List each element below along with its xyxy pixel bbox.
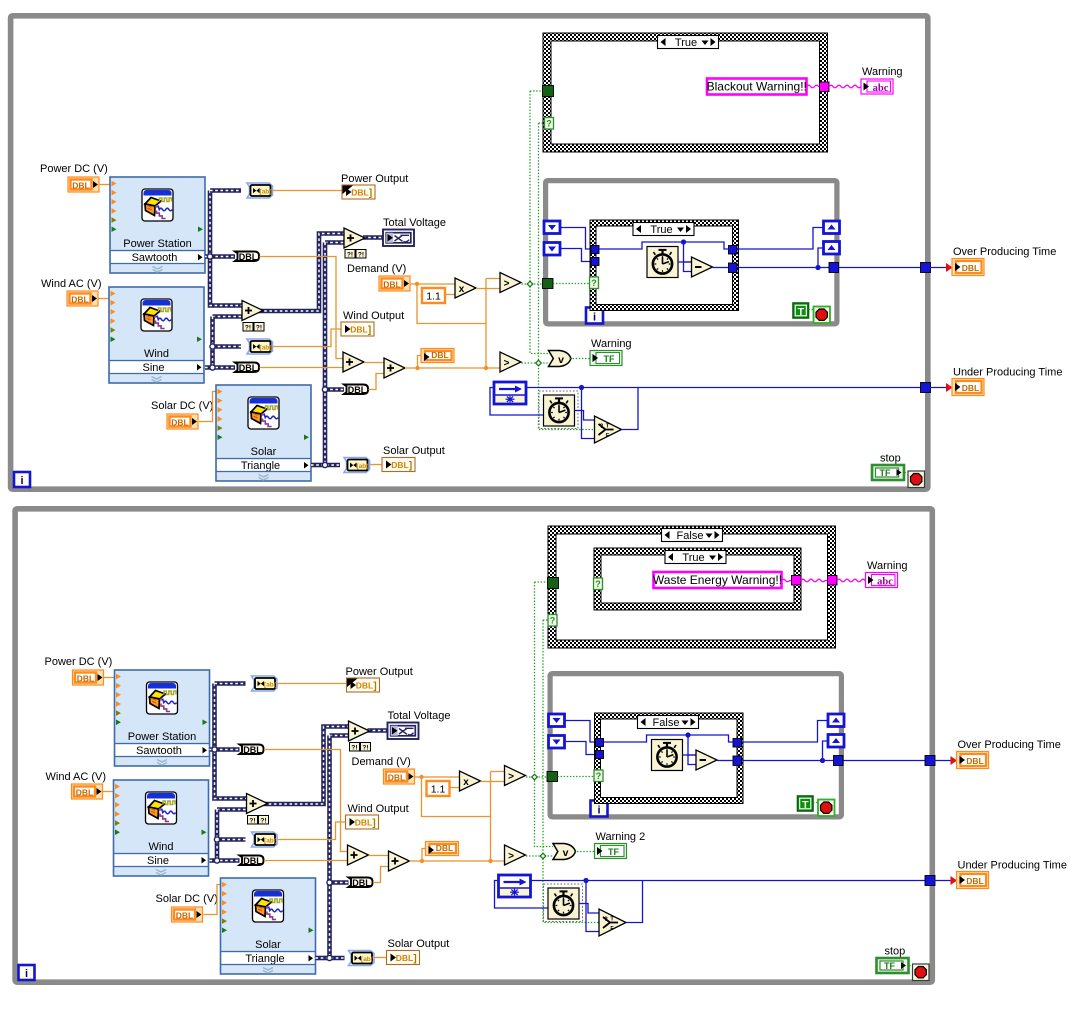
tunnel case left 1 [591, 246, 599, 254]
svg-text:DBL: DBL [77, 674, 94, 684]
svg-text:Power Station: Power Station [128, 731, 196, 743]
wire Wind AC to Wind [98, 298, 109, 300]
svg-text:DBL: DBL [356, 681, 373, 691]
wire branch to DBL indicator [422, 849, 426, 862]
junction sine [210, 344, 215, 349]
control Wind AC (V) DBL [67, 291, 98, 306]
case selector terminal [590, 277, 599, 289]
tunnel outer over [925, 756, 935, 766]
wire dynamic sine trunk [217, 807, 247, 812]
terminal sine DBL sink 2 [240, 856, 264, 866]
wire sine DBL to add [264, 860, 348, 862]
inner loop stop terminal [814, 307, 831, 324]
node subtract [692, 257, 713, 277]
wire T to stop [813, 803, 823, 807]
svg-text:i: i [25, 968, 28, 980]
wire dynamic solar trunk [325, 240, 344, 245]
svg-text:i: i [597, 805, 600, 817]
wire or to Warning [574, 851, 595, 853]
shift register left down 1 2 [549, 714, 565, 727]
control Solar DC (V) DBL [167, 414, 198, 429]
svg-text:DBL: DBL [383, 280, 400, 290]
wire total scalar to greater under [410, 860, 505, 862]
shift register right up 1 [824, 221, 840, 234]
svg-text:Warning 2: Warning 2 [596, 831, 646, 843]
wire clock out [683, 754, 697, 756]
svg-text:>: > [504, 278, 510, 289]
svg-text:Demand (V): Demand (V) [352, 756, 411, 768]
svg-text:]: ] [373, 681, 376, 692]
node multiply demand x 1.1 [455, 278, 476, 298]
wire solar DBL to add2 [373, 867, 389, 883]
wire select feedback loop [622, 388, 639, 430]
while loop 2 iteration terminal i [19, 965, 35, 980]
svg-text:T: T [802, 799, 809, 811]
svg-text:]: ] [369, 188, 372, 199]
node feedback 2 [499, 875, 531, 897]
tunnel case right 2 [733, 756, 742, 766]
wire case inside top [599, 242, 729, 249]
inner while loop 2 border [550, 674, 841, 817]
svg-text:Warning: Warning [591, 338, 632, 350]
junction sine [214, 837, 219, 842]
wire dynamic solar trunk [330, 733, 349, 738]
node add total 2 [349, 721, 370, 741]
wire convert wind to Wind Output [278, 822, 346, 840]
tunnel boolean into inner loop [547, 772, 558, 782]
svg-text:Wind AC (V): Wind AC (V) [46, 771, 107, 783]
node or warning [549, 351, 572, 367]
tunnel case right 1 [733, 739, 742, 748]
express VI Solar (Triangle) 2 [221, 878, 316, 974]
wire shift1 to case [565, 721, 597, 743]
terminal solar DBL sink [344, 385, 368, 395]
svg-text:[ab(: [ab( [361, 956, 374, 963]
svg-text:>: > [508, 771, 514, 782]
wire case out over-producing [737, 267, 925, 269]
node add total [344, 228, 365, 248]
svg-text:1.1: 1.1 [426, 291, 441, 303]
indicator Wind Output DBL [341, 322, 374, 336]
clock express VI dashed frame [539, 391, 578, 429]
wire under-producing main [531, 880, 930, 882]
svg-text:Sawtooth: Sawtooth [132, 252, 178, 264]
svg-text:?!: ?! [245, 324, 251, 331]
constant 1.1 2 [427, 781, 450, 796]
express VI Solar (Triangle) [216, 385, 311, 481]
while loop 1 border [11, 16, 928, 489]
svg-text:True: True [682, 552, 704, 564]
svg-text:?!: ?! [351, 744, 357, 751]
tunnel magenta inner [792, 576, 802, 586]
shift register right up 2 [824, 242, 840, 255]
svg-text:DBL: DBL [176, 911, 193, 921]
wire demand branch down [422, 777, 491, 817]
wire vertical to comparators [485, 279, 487, 369]
svg-text:]: ] [372, 818, 375, 829]
svg-text:DBL: DBL [350, 325, 367, 335]
shift register left down 2 [544, 243, 560, 256]
wire shift2 to case [565, 742, 597, 755]
svg-text:Wind: Wind [148, 841, 173, 853]
indicator total DBL 2 [426, 842, 459, 856]
svg-text:>: > [508, 851, 514, 862]
wire junction to select [586, 881, 599, 932]
svg-text:Solar DC (V): Solar DC (V) [151, 400, 213, 412]
wire string to tunnel [807, 85, 821, 88]
svg-text:Sawtooth: Sawtooth [136, 745, 182, 757]
wire feedback init loop [490, 388, 543, 416]
wire over to indicator [935, 760, 955, 762]
control Power DC (V) 2 DBL [73, 670, 104, 685]
svg-text:TF: TF [880, 468, 891, 478]
case structure warning 1 [543, 33, 828, 152]
tunnel outer over [921, 263, 931, 273]
tunnel boolean warning case [543, 86, 554, 97]
svg-text:?!: ?! [347, 251, 353, 258]
node elapsed time clock case 2 [652, 740, 683, 771]
wire add to add2 [364, 362, 384, 364]
node add total scalar [384, 358, 405, 378]
svg-text:DBL: DBL [966, 756, 983, 766]
svg-text:DBL: DBL [351, 188, 368, 198]
case structure warning inner True [594, 548, 801, 610]
string constant Waste Energy Warning!! [654, 572, 782, 588]
wire dynamic sawtooth trunk [210, 191, 242, 306]
junction boolean diamonds [532, 774, 538, 780]
indicator Warning TF [590, 351, 622, 366]
express VI Wind (Sine) [109, 287, 204, 383]
wire 1.1 to multiply [445, 294, 455, 296]
wire over to indicator [930, 267, 950, 269]
wire dynamic add output to total add [259, 234, 344, 312]
svg-text:Blackout Warning!!: Blackout Warning!! [707, 80, 807, 94]
case selector terminal 2 [594, 770, 603, 782]
case selector terminal warning inner [594, 578, 603, 590]
svg-text:?: ? [591, 278, 597, 288]
indicator Power Output DBL [342, 185, 375, 199]
svg-text:DBL: DBL [72, 181, 89, 191]
node subtract 2 [696, 750, 717, 770]
node elapsed time clock case [647, 247, 678, 278]
node convert power dynamic [247, 183, 273, 198]
wire shift1 to case [560, 228, 592, 250]
wire clock out [678, 261, 692, 263]
indicator Solar Output DBL [382, 458, 415, 472]
indicator Under Producing Time 2 DBL [957, 872, 989, 889]
while loop 2 border [15, 509, 932, 982]
wire junction to select [582, 388, 595, 439]
wire string to inner tunnel [782, 579, 792, 582]
svg-text:Power DC (V): Power DC (V) [45, 656, 113, 668]
svg-text:DBL: DBL [243, 856, 262, 866]
wire to shift up 2 [823, 741, 829, 761]
tunnel outer under [925, 876, 935, 886]
svg-text:Over Producing Time: Over Producing Time [953, 246, 1056, 258]
svg-text:?: ? [595, 579, 601, 589]
inner while loop 2 iteration terminal [591, 801, 608, 817]
svg-text:Sine: Sine [147, 855, 169, 867]
indicator Wind Output 2 DBL [346, 815, 379, 829]
wire subtract out [717, 760, 733, 762]
svg-text:?!: ?! [249, 817, 255, 824]
control stop TF [872, 465, 904, 480]
tunnel case right 1 [729, 246, 738, 255]
wire inner to outer tunnel [801, 579, 828, 582]
wire dynamic total to Total Voltage [368, 728, 388, 733]
express VI Wind (Sine) 2 [114, 780, 209, 876]
wire boolean to case selector [558, 776, 595, 778]
svg-text:x: x [459, 284, 465, 295]
wire demand to multiply [410, 283, 455, 285]
svg-text:stop: stop [885, 946, 906, 958]
wire convert solar to Solar Output [375, 957, 387, 959]
svg-text:Wind Output: Wind Output [343, 310, 404, 322]
shift register right up 1 2 [828, 714, 844, 727]
svg-text:?: ? [600, 424, 604, 430]
svg-text:Power Station: Power Station [123, 238, 191, 250]
svg-text:?!: ?! [260, 817, 266, 824]
junction solar [327, 880, 332, 885]
loop condition terminal [908, 471, 925, 488]
loop condition terminal 2 [913, 964, 930, 981]
wire 1.1 to multiply [450, 787, 460, 789]
svg-text:[ab(: [ab( [357, 463, 370, 470]
svg-text:>: > [504, 358, 510, 369]
svg-text:abc: abc [877, 576, 893, 587]
wire solar DBL to add2 [369, 374, 385, 390]
wire case inside drop [684, 242, 692, 262]
constant True 2 [798, 796, 814, 811]
svg-text:Wind: Wind [144, 348, 169, 360]
svg-text:DBL: DBL [436, 843, 453, 853]
svg-text:?: ? [596, 771, 602, 781]
express VI Power Station (Sawtooth) [110, 177, 205, 273]
wire branch to DBL indicator [418, 356, 422, 369]
node greater under-producing [500, 352, 521, 372]
svg-text:Solar: Solar [255, 939, 281, 951]
control Solar DC (V) 2 DBL [172, 907, 203, 922]
node elapsed time clock lower [544, 395, 575, 426]
node convert wind dynamic [247, 339, 273, 354]
svg-text:DBL: DBL [391, 460, 408, 470]
node convert wind dynamic 2 [252, 832, 278, 847]
wire convert power to Power Output [278, 683, 347, 685]
case structure timer 2 [595, 713, 744, 804]
svg-text:DBL: DBL [962, 263, 979, 273]
svg-text:DBL: DBL [431, 350, 448, 360]
node add total scalar 2 [389, 851, 410, 871]
svg-text:Power Output: Power Output [346, 666, 413, 678]
svg-text:Solar: Solar [251, 446, 277, 458]
wire convert solar to Solar Output [370, 464, 382, 466]
node select [595, 416, 622, 443]
indicator Total Voltage [383, 230, 414, 247]
svg-text:]: ] [409, 461, 412, 472]
wire under to indicator [930, 387, 950, 389]
node convert power dynamic 2 [252, 676, 278, 691]
control Wind AC (V) 2 DBL [72, 784, 103, 799]
wire clock to select [575, 411, 595, 421]
svg-text:False: False [677, 530, 704, 542]
tunnel case right 2 [729, 263, 738, 273]
wire case out over-producing [742, 760, 930, 762]
svg-text:Power Output: Power Output [341, 173, 408, 185]
svg-text:Wind AC (V): Wind AC (V) [41, 278, 102, 290]
wire Wind AC to Wind [103, 791, 114, 793]
svg-text:?!: ?! [362, 744, 368, 751]
wire or to Warning [570, 358, 591, 360]
tunnel outer under [921, 383, 931, 393]
wire boolean under to or [522, 362, 549, 364]
svg-text:Power DC (V): Power DC (V) [40, 163, 108, 175]
svg-text:i: i [20, 475, 23, 487]
wire stop to condition [905, 472, 909, 474]
while loop 1 iteration terminal i [14, 472, 30, 487]
svg-text:Over Producing Time: Over Producing Time [958, 739, 1061, 751]
wire multiply to greater [481, 781, 505, 783]
svg-text:DBL: DBL [76, 788, 93, 798]
shift register left down 2 2 [549, 736, 565, 749]
wire demand to multiply [415, 776, 460, 778]
wire case inside top [604, 735, 734, 742]
junction sawtooth [207, 254, 212, 259]
indicator Solar Output 2 DBL [387, 951, 420, 965]
wire subtract out [713, 267, 729, 269]
node add Wind+Power scalar [343, 352, 364, 372]
wire dynamic sawtooth trunk [215, 684, 247, 799]
node add Power+Wind 2 [247, 794, 268, 814]
string constant Blackout Warning!! [707, 79, 807, 95]
wire boolean over to case [526, 776, 550, 778]
svg-text:DBL: DBL [388, 773, 405, 783]
node greater over-producing [500, 273, 521, 293]
svg-text:x: x [463, 777, 469, 788]
tunnel magenta outer [828, 576, 838, 586]
wire string to Warning indicator [829, 85, 861, 88]
svg-text:Total Voltage: Total Voltage [383, 217, 446, 229]
wire multiply to greater [476, 288, 500, 290]
svg-text:TF: TF [608, 847, 619, 857]
control Power DC (V) DBL [68, 177, 99, 192]
wire Power DC to Power Station [99, 184, 110, 186]
indicator Over Producing Time 2 DBL [957, 752, 989, 769]
node greater under-producing 2 [505, 845, 526, 865]
inner loop stop terminal 2 [818, 800, 835, 817]
svg-text:stop: stop [880, 453, 901, 465]
svg-text:DBL: DBL [966, 876, 983, 886]
node greater over-producing 2 [505, 766, 526, 786]
wire select feedback loop [626, 881, 643, 923]
svg-text:v: v [563, 847, 569, 859]
svg-text:Triangle: Triangle [245, 953, 284, 965]
wire under-producing main [526, 387, 925, 389]
svg-text:DBL: DBL [239, 363, 258, 373]
svg-text:]: ] [413, 954, 416, 965]
svg-text:Under Producing Time: Under Producing Time [953, 367, 1062, 379]
case structure timer [590, 220, 739, 311]
svg-text:[ab(: [ab( [260, 189, 273, 196]
svg-text:DBL: DBL [71, 295, 88, 305]
wire Power DC to Power Station [104, 677, 115, 679]
case selector terminal warning outer [548, 615, 557, 627]
wire case inside drop [688, 735, 696, 755]
tunnel case left 2 [596, 751, 604, 759]
svg-text:Solar DC (V): Solar DC (V) [156, 893, 218, 905]
svg-text:v: v [558, 354, 564, 366]
wire feedback init loop [495, 881, 548, 909]
node add Wind+Power scalar 2 [348, 845, 369, 865]
wire clock to select [579, 904, 599, 914]
tunnel boolean warning case 2 [548, 578, 559, 589]
svg-text:abc: abc [873, 83, 889, 94]
wire stop to condition [909, 965, 913, 967]
wire to Warning indicator 2 [837, 579, 866, 582]
wire under to indicator [935, 880, 955, 882]
wire Solar DC to Solar [199, 392, 216, 422]
tunnel boolean into inner loop [543, 279, 554, 289]
svg-text:DBL: DBL [355, 818, 372, 828]
svg-text:TF: TF [604, 354, 615, 364]
svg-text:?!: ?! [256, 324, 262, 331]
constant 1.1 [422, 288, 445, 303]
wire sawtooth DBL to add [260, 257, 344, 359]
wire Solar DC to Solar [204, 885, 221, 915]
svg-text:DBL: DBL [962, 383, 979, 393]
wire sine DBL to add [260, 367, 344, 369]
svg-text:Triangle: Triangle [241, 460, 280, 472]
svg-text:Demand (V): Demand (V) [347, 263, 406, 275]
case selector terminal warning 1 [545, 118, 554, 130]
svg-text:i: i [593, 312, 596, 324]
indicator Total Voltage 2 [388, 723, 419, 740]
wire to shift up 2 [818, 248, 824, 268]
svg-text:DBL: DBL [239, 252, 258, 262]
case structure warning outer False [548, 526, 836, 648]
indicator Over Producing Time DBL [952, 259, 984, 276]
svg-text:DBL: DBL [396, 953, 413, 963]
wire shift2 to case [560, 249, 592, 262]
svg-text:?: ? [604, 917, 608, 923]
terminal sawtooth DBL sink 2 [240, 745, 264, 755]
wire add to add2 [369, 855, 389, 857]
indicator Power Output 2 DBL [347, 678, 380, 692]
wire T to stop [809, 310, 819, 314]
junction solar [322, 387, 327, 392]
shift register left down 1 [544, 221, 560, 234]
svg-text:Solar Output: Solar Output [388, 938, 450, 950]
svg-text:Sine: Sine [142, 362, 164, 374]
indicator Warning 2 abc [866, 573, 898, 588]
wire case to shift up 1 [742, 721, 829, 743]
wire total scalar to greater under [405, 367, 500, 369]
junction sawtooth [212, 747, 217, 752]
shift register right up 2 2 [828, 735, 844, 748]
svg-text:?!: ?! [358, 251, 364, 258]
svg-text:DBL: DBL [171, 418, 188, 428]
svg-text:Under Producing Time: Under Producing Time [958, 860, 1067, 872]
wire dynamic add output to total add [264, 727, 349, 805]
indicator Warning 1 abc [861, 79, 893, 94]
terminal sine DBL sink [235, 363, 259, 373]
svg-text:]: ] [368, 325, 371, 336]
wire demand branch down [417, 284, 486, 324]
tunnel case left 1 [596, 739, 604, 747]
junction boolean diamonds [527, 281, 533, 287]
svg-text:DBL: DBL [243, 745, 262, 755]
node add Power+Wind [242, 301, 263, 321]
svg-text:DBL: DBL [348, 385, 367, 395]
